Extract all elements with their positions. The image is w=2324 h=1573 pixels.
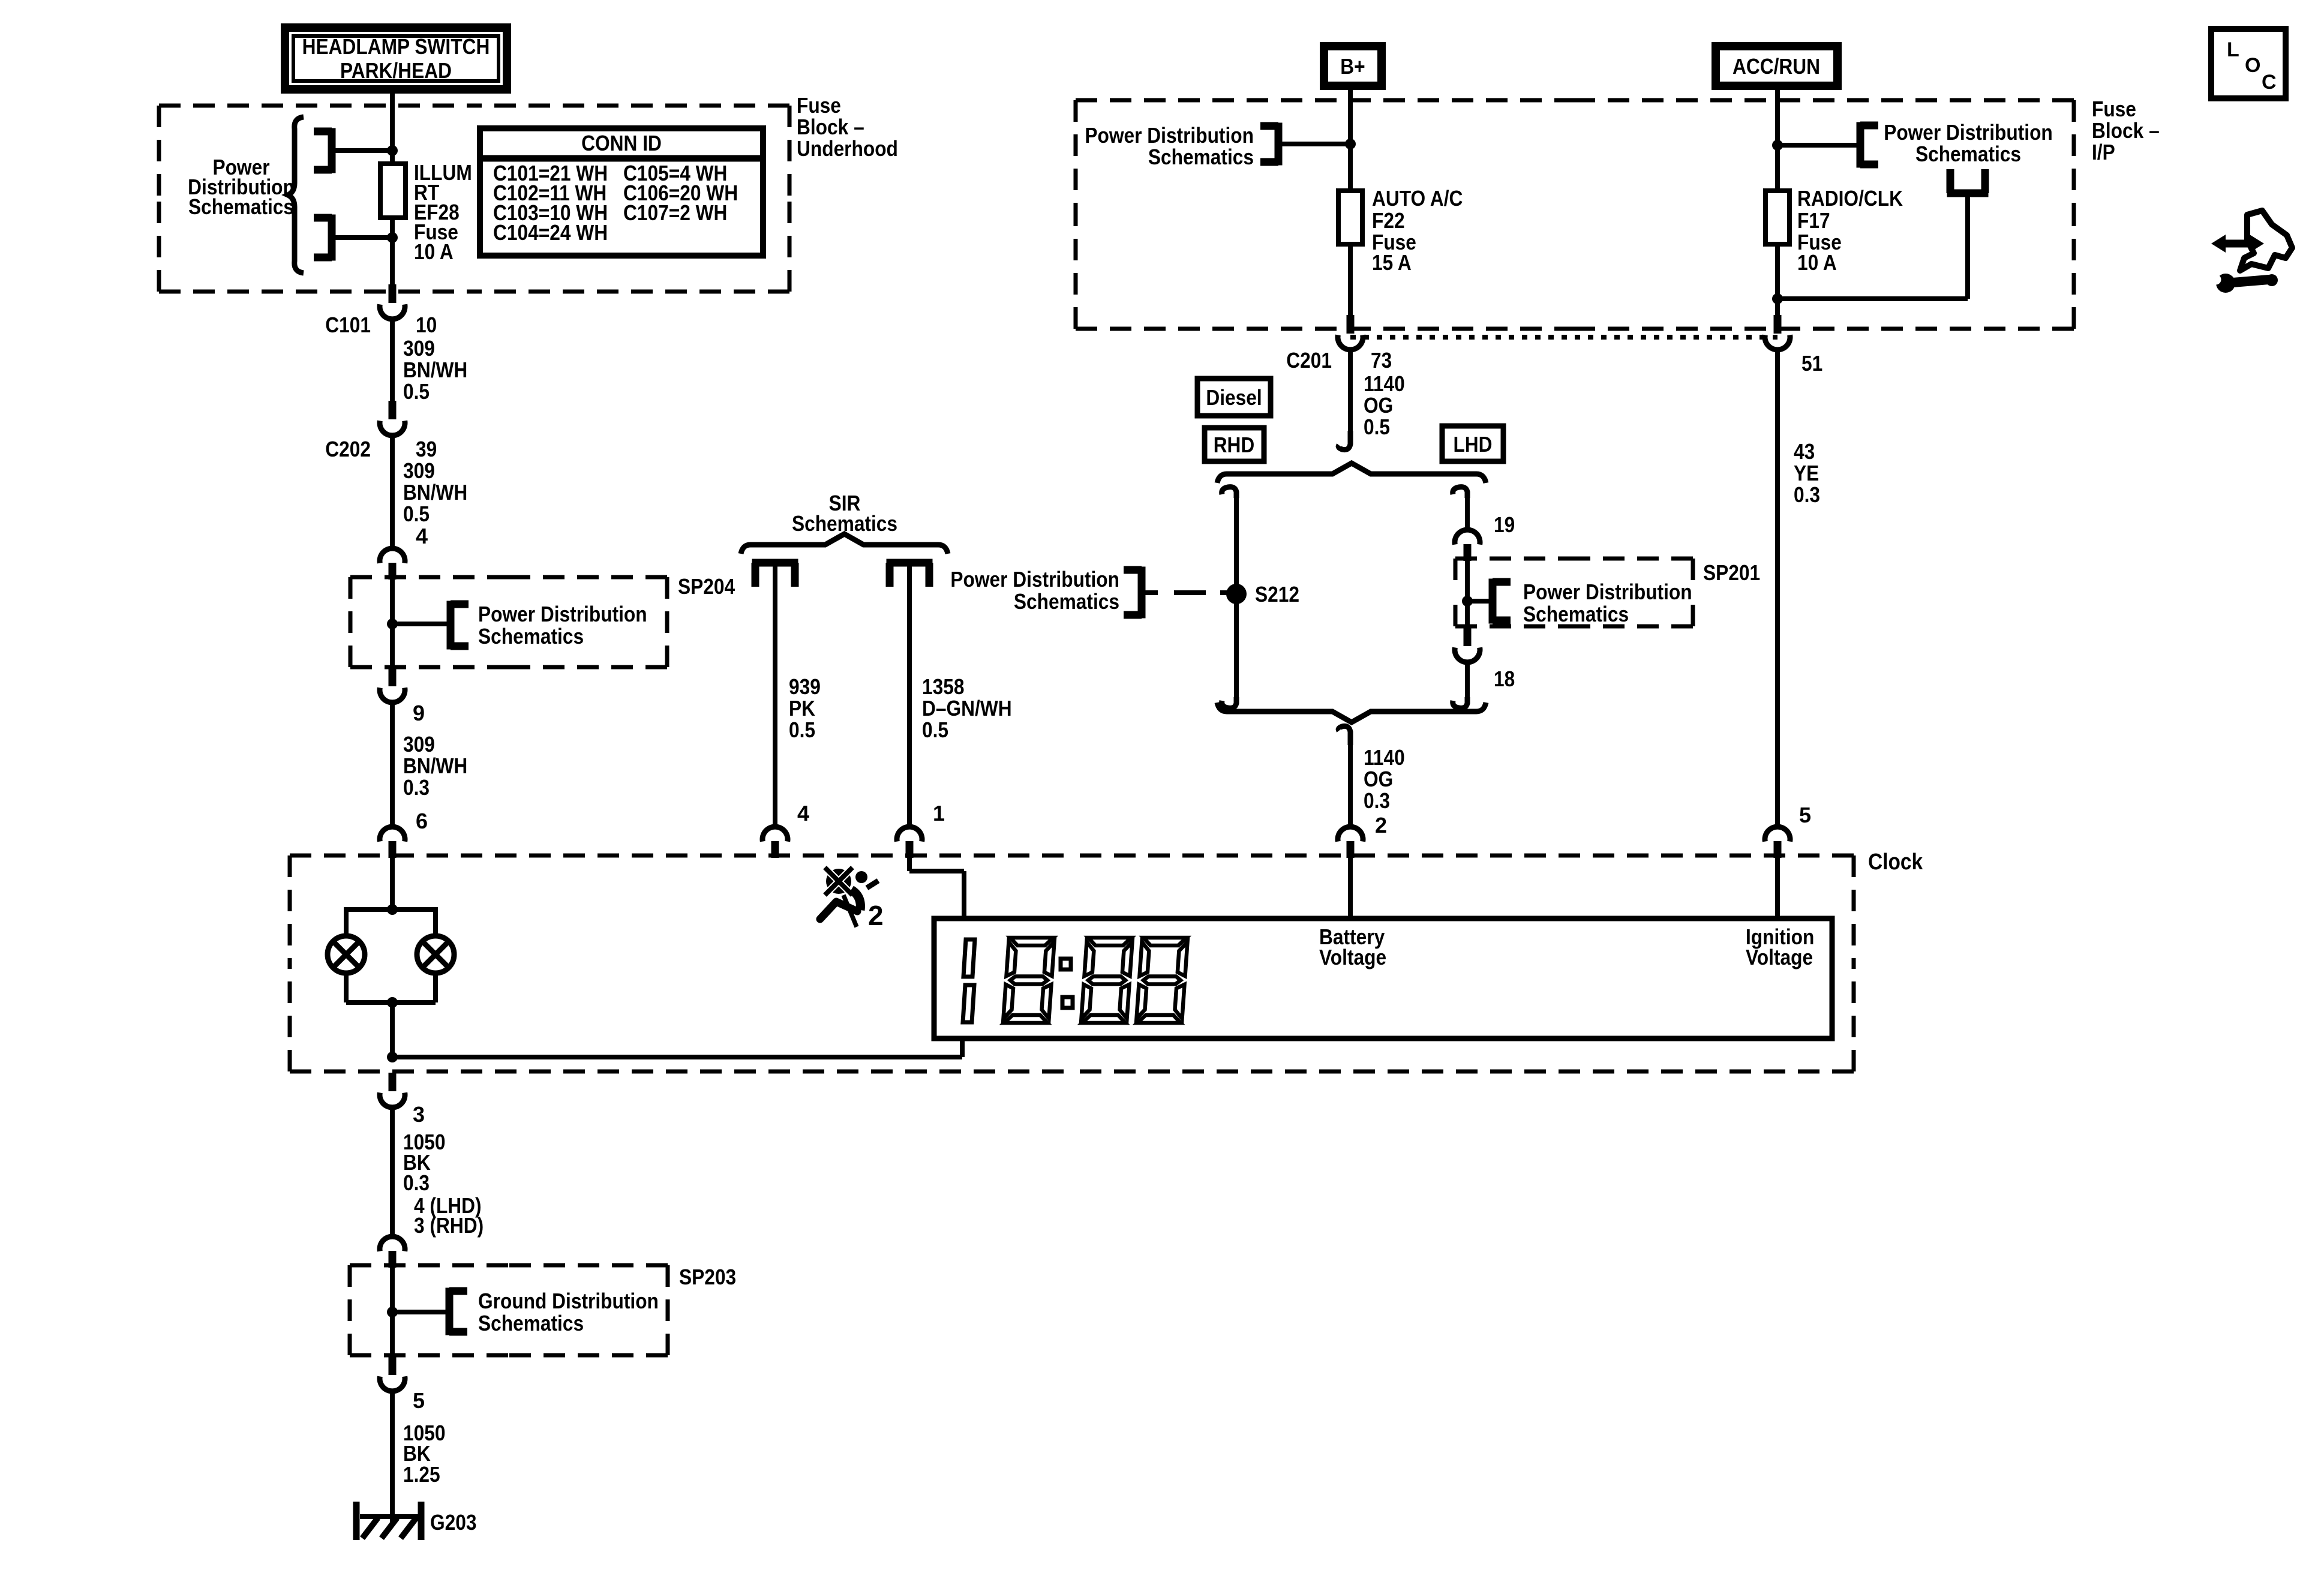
- wire stub lower to main: [332, 235, 392, 240]
- svg-text:SP201: SP201: [1703, 560, 1760, 585]
- svg-text:0.5: 0.5: [789, 718, 815, 742]
- svg-text:10 A: 10 A: [1797, 250, 1837, 275]
- svg-text:OG: OG: [1364, 767, 1393, 791]
- wire pin2 to display: [1348, 853, 1353, 920]
- connector pin 1 into clock: [897, 827, 922, 858]
- icon wrench: [2211, 274, 2278, 293]
- label G203: [430, 1510, 477, 1535]
- brace alternatives lower: [1217, 703, 1486, 722]
- display digit 8 second: [1082, 938, 1133, 1023]
- junction SP204: [387, 619, 398, 629]
- SP201 dashed box: [1455, 559, 1693, 626]
- SP204 dashed box: [350, 577, 667, 667]
- svg-text:PK: PK: [789, 696, 815, 721]
- connector pin 4 into clock: [762, 827, 788, 858]
- svg-text:939: 939: [789, 674, 821, 699]
- label wire 43 YE 0.3: [1794, 439, 1820, 507]
- label fuse ILLUM RT EF28: [414, 160, 472, 264]
- wire stub upper to main: [332, 148, 392, 153]
- svg-text:1140: 1140: [1364, 371, 1405, 396]
- svg-text:Schematics: Schematics: [1148, 145, 1254, 169]
- junction ground rail: [387, 1052, 398, 1062]
- wire lamp branch bottom rail: [346, 1000, 436, 1005]
- brace SIR schematics: [741, 534, 948, 554]
- wire SP203 to bracket: [392, 1310, 449, 1314]
- splice S212: [1226, 584, 1247, 604]
- wire lamp right bottom: [433, 972, 438, 1002]
- connector C202 pin 39: [380, 401, 405, 436]
- svg-text:0.5: 0.5: [1364, 415, 1390, 439]
- svg-text:1140: 1140: [1364, 745, 1405, 770]
- wire C201 to brace: [1348, 349, 1353, 444]
- clock dashed box: [290, 855, 1854, 1071]
- connector pin 5 into clock: [1765, 827, 1790, 858]
- svg-text:Power Distribution: Power Distribution: [950, 567, 1119, 592]
- connector pin 18: [1455, 628, 1480, 662]
- svg-text:0.3: 0.3: [403, 775, 430, 800]
- svg-text:Diesel: Diesel: [1206, 385, 1262, 410]
- svg-text:0.3: 0.3: [403, 1170, 430, 1195]
- label airbag 2: [868, 900, 884, 931]
- wire F22 to C201: [1348, 244, 1353, 316]
- svg-text:F17: F17: [1797, 208, 1830, 233]
- svg-text:0.5: 0.5: [922, 718, 948, 742]
- svg-text:1: 1: [933, 801, 945, 825]
- connector C201 pin 51: [1765, 315, 1790, 350]
- wire C101 to C202: [390, 318, 395, 402]
- svg-text:9: 9: [413, 701, 425, 725]
- label fuse RADIO/CLK F17: [1797, 186, 1903, 275]
- svg-text:B+: B+: [1340, 54, 1365, 79]
- label pin 10: [416, 313, 437, 337]
- break hook above brace: [1338, 431, 1350, 450]
- svg-text:6: 6: [416, 809, 428, 833]
- label Power Distribution Schematics (S212): [950, 567, 1119, 614]
- svg-text:C202: C202: [325, 437, 371, 461]
- label Ground Distribution Schematics: [478, 1289, 659, 1335]
- svg-text:I/P: I/P: [2092, 140, 2115, 164]
- wire ground rail: [392, 1055, 962, 1059]
- wire lamp left bottom: [344, 972, 349, 1002]
- svg-text:0.3: 0.3: [1364, 788, 1390, 813]
- label pin 51: [1801, 351, 1822, 376]
- label Ignition Voltage: [1746, 924, 1814, 969]
- svg-text:PARK/HEAD: PARK/HEAD: [340, 58, 452, 83]
- svg-text:CONN ID: CONN ID: [581, 131, 662, 155]
- connector stub SP201 power distribution: [1493, 579, 1511, 624]
- connector stub ACC power distribution upper: [1860, 122, 1878, 168]
- label box RHD: [1205, 428, 1264, 461]
- svg-text:39: 39: [416, 437, 437, 461]
- label wire 309 BN/WH 0.5 (b): [403, 458, 467, 526]
- label fuse AUTO A/C F22: [1372, 186, 1463, 275]
- hook RHD branch bottom: [1222, 697, 1236, 708]
- label Clock: [1868, 849, 1923, 875]
- connector into SP204: [380, 548, 405, 580]
- wire fuse to C101: [390, 218, 395, 286]
- wire B+ to fuse F22: [1348, 86, 1353, 191]
- wire SIR pin4: [773, 563, 777, 828]
- connector stub SP203 ground distribution: [449, 1288, 467, 1335]
- connector stub B+ power distribution: [1260, 123, 1278, 166]
- label pin 6: [416, 809, 428, 833]
- label wire 1140 OG 0.5: [1364, 371, 1405, 439]
- label box Diesel: [1197, 379, 1271, 416]
- label wire 1358 D-GN/WH 0.5: [922, 674, 1012, 742]
- wire inside SP201: [1465, 557, 1470, 628]
- wire SIR pin1: [907, 563, 912, 828]
- label Power Distribution Schematics (ACC upper): [1884, 120, 2053, 166]
- svg-text:0.5: 0.5: [403, 502, 430, 526]
- fuse block underhood dashed box: [159, 106, 789, 292]
- brace alternatives upper: [1217, 463, 1486, 483]
- wire pin18 down: [1465, 661, 1470, 698]
- svg-text:AUTO A/C: AUTO A/C: [1372, 186, 1463, 211]
- svg-text:4: 4: [797, 801, 809, 825]
- wire F17 to pin51: [1775, 244, 1780, 316]
- svg-text:Schematics: Schematics: [1014, 589, 1119, 614]
- svg-text:4: 4: [416, 524, 428, 548]
- icon navigation pointer: [2211, 211, 2292, 271]
- wire pin51 to pin5: [1775, 349, 1780, 828]
- svg-text:Block –: Block –: [797, 115, 864, 139]
- svg-text:2: 2: [1375, 813, 1387, 837]
- label pin 4 (SP204): [416, 524, 428, 548]
- label pin 1 (clock): [933, 801, 945, 825]
- connector pin 3: [380, 1073, 405, 1107]
- display digit 8 third: [1137, 938, 1188, 1023]
- svg-text:G203: G203: [430, 1510, 477, 1535]
- wire RHD branch: [1234, 496, 1239, 698]
- svg-text:10: 10: [416, 313, 437, 337]
- svg-text:SP203: SP203: [679, 1265, 736, 1289]
- junction ACC upper: [1772, 140, 1783, 151]
- junction ACC lower: [1772, 293, 1783, 304]
- svg-text:Voltage: Voltage: [1746, 945, 1813, 969]
- label Battery Voltage: [1319, 924, 1386, 969]
- svg-text:73: 73: [1371, 348, 1392, 373]
- wire lamp branch top rail: [346, 907, 436, 912]
- label 3 (RHD): [414, 1213, 484, 1238]
- svg-text:C201: C201: [1286, 348, 1332, 373]
- wire ACC/RUN to fuse F17: [1775, 86, 1780, 191]
- connector stub ACC power distribution lower: [1947, 169, 1989, 193]
- label wire 1050 BK 0.3: [403, 1130, 446, 1195]
- svg-text:C107=2 WH: C107=2 WH: [623, 200, 727, 225]
- label C202: [325, 437, 371, 461]
- SP203 dashed box: [350, 1265, 668, 1355]
- connector stub lower (power distribution): [314, 215, 332, 261]
- wire pin6 to lamp branch: [390, 853, 395, 909]
- svg-text:15 A: 15 A: [1372, 250, 1412, 275]
- wire stub to ACC leg: [1777, 143, 1860, 148]
- junction lamp bottom: [387, 997, 398, 1008]
- svg-text:1.25: 1.25: [403, 1462, 440, 1487]
- svg-text:OG: OG: [1364, 393, 1393, 418]
- svg-text:309: 309: [403, 458, 435, 483]
- connector into SP203: [380, 1236, 405, 1268]
- svg-text:C: C: [2262, 71, 2277, 94]
- svg-text:3 (RHD): 3 (RHD): [414, 1213, 484, 1238]
- wire LHD to pin19: [1465, 496, 1470, 532]
- svg-text:Power Distribution: Power Distribution: [1523, 580, 1692, 604]
- hook LHD branch bottom: [1453, 697, 1467, 708]
- label Power Distribution Schematics (SP201): [1523, 580, 1692, 626]
- svg-text:Power Distribution: Power Distribution: [478, 602, 647, 626]
- label Power Distribution Schematics (B+): [1085, 123, 1254, 169]
- label pin 9: [413, 701, 425, 725]
- wire dashed to S212: [1142, 590, 1236, 595]
- svg-text:O: O: [2245, 54, 2260, 77]
- svg-text:Schematics: Schematics: [188, 194, 294, 219]
- connector stub upper (power distribution): [314, 128, 332, 173]
- label pin 5 (clock): [1799, 803, 1811, 827]
- svg-text:1358: 1358: [922, 674, 965, 699]
- svg-text:Voltage: Voltage: [1319, 945, 1386, 969]
- wire stub to B+ leg: [1278, 142, 1350, 146]
- wire pin3 to SP203: [390, 1106, 395, 1235]
- svg-text:5: 5: [413, 1388, 425, 1413]
- lamp right: [417, 936, 454, 973]
- wire headlamp switch to fuse: [390, 94, 395, 164]
- connector pin 9: [380, 668, 405, 703]
- svg-text:19: 19: [1494, 512, 1515, 537]
- wire lamp left drop: [344, 907, 349, 938]
- svg-text:3: 3: [413, 1102, 425, 1127]
- label Power Distribution Schematics (SP204): [478, 602, 647, 649]
- connector drop SIR right: [887, 563, 933, 587]
- junction SP203: [387, 1307, 398, 1317]
- power terminal B+: [1324, 46, 1382, 86]
- ground G203: [356, 1502, 421, 1540]
- label pin 73: [1371, 348, 1392, 373]
- connector C201 pin 73: [1338, 315, 1363, 350]
- svg-text:Schematics: Schematics: [1915, 142, 2021, 166]
- wire pin5 to ground: [390, 1390, 395, 1524]
- svg-text:2: 2: [868, 900, 884, 931]
- display colon: [1061, 959, 1073, 1008]
- lamp left: [328, 936, 365, 973]
- connector pin 6 into clock: [380, 827, 405, 858]
- wire rail to display: [960, 1036, 965, 1057]
- label SP204: [678, 574, 735, 599]
- junction upper: [387, 145, 398, 156]
- connector pin 19 into SP201: [1455, 530, 1480, 561]
- break hook below brace: [1338, 726, 1350, 745]
- label pin 19: [1494, 512, 1515, 537]
- label wire 1050 BK 1.25: [403, 1421, 446, 1487]
- label SP203: [679, 1265, 736, 1289]
- label C101: [325, 313, 371, 337]
- connector C101 pin 10: [380, 284, 405, 319]
- label wire 939 PK 0.5: [789, 674, 821, 742]
- svg-text:Clock: Clock: [1868, 849, 1923, 875]
- junction lamp top: [387, 904, 398, 915]
- svg-text:BN/WH: BN/WH: [403, 754, 467, 778]
- label wire 1140 OG 0.3: [1364, 745, 1405, 813]
- label S212: [1255, 582, 1299, 607]
- svg-text:Block –: Block –: [2092, 118, 2160, 143]
- svg-text:F22: F22: [1372, 208, 1405, 233]
- wire SP201 to bracket: [1467, 599, 1493, 604]
- svg-text:10 A: 10 A: [414, 239, 454, 264]
- label 4 (LHD): [414, 1193, 482, 1218]
- svg-text:Schematics: Schematics: [478, 1311, 584, 1335]
- label wire 309 BN/WH 0.3: [403, 732, 467, 800]
- wire lamp to ground rail: [390, 1002, 395, 1057]
- icon airbag SIR: [820, 867, 878, 927]
- dotted connector line C201: [1350, 335, 1777, 340]
- svg-text:RADIO/CLK: RADIO/CLK: [1797, 186, 1903, 211]
- svg-text:S212: S212: [1255, 582, 1299, 607]
- label pin 18: [1494, 667, 1515, 691]
- component box HEADLAMP SWITCH PARK/HEAD: [285, 28, 507, 89]
- connector stub SP204 power distribution: [451, 601, 469, 650]
- svg-text:18: 18: [1494, 667, 1515, 691]
- svg-text:ACC/RUN: ACC/RUN: [1733, 54, 1820, 79]
- svg-text:BN/WH: BN/WH: [403, 480, 467, 505]
- wire C202 to SP204: [390, 434, 395, 546]
- connector pin 2 into clock: [1338, 827, 1363, 858]
- connector stub S212 power distribution: [1124, 567, 1142, 619]
- connector drop SIR left: [752, 563, 798, 587]
- display digit 1: [963, 939, 975, 1022]
- svg-text:C101: C101: [325, 313, 371, 337]
- power terminal ACC/RUN: [1716, 46, 1837, 86]
- svg-text:BN/WH: BN/WH: [403, 358, 467, 382]
- svg-text:Power Distribution: Power Distribution: [1884, 120, 2053, 145]
- label pin 39: [416, 437, 437, 461]
- label pin 2: [1375, 813, 1387, 837]
- label wire 309 BN/WH 0.5 (a): [403, 336, 467, 404]
- CONN ID table: [480, 128, 763, 256]
- svg-text:HEADLAMP SWITCH: HEADLAMP SWITCH: [302, 34, 490, 59]
- svg-text:Fuse: Fuse: [797, 93, 841, 118]
- svg-text:L: L: [2227, 38, 2239, 61]
- svg-text:43: 43: [1794, 439, 1815, 464]
- svg-text:309: 309: [403, 732, 435, 757]
- svg-text:Fuse: Fuse: [2092, 97, 2136, 121]
- svg-text:YE: YE: [1794, 461, 1819, 485]
- label box LHD: [1442, 426, 1503, 461]
- wire pin5 to display: [1775, 853, 1780, 920]
- junction B+ leg: [1345, 139, 1356, 149]
- clock display box: [934, 918, 1832, 1038]
- svg-text:309: 309: [403, 336, 435, 361]
- label Fuse Block I/P: [2092, 97, 2160, 164]
- brace power distribution: [288, 117, 304, 273]
- wire lamp right drop: [433, 907, 438, 938]
- svg-text:Underhood: Underhood: [797, 136, 898, 161]
- junction lower: [387, 232, 398, 243]
- label pin 5 (ground): [413, 1388, 425, 1413]
- wire brace to pin2: [1348, 744, 1353, 828]
- label C201: [1286, 348, 1332, 373]
- svg-text:Ground Distribution: Ground Distribution: [478, 1289, 659, 1313]
- svg-text:Schematics: Schematics: [478, 624, 584, 649]
- svg-text:C104=24 WH: C104=24 WH: [493, 220, 608, 245]
- svg-text:0.3: 0.3: [1794, 482, 1820, 507]
- label pin 4 (clock): [797, 801, 809, 825]
- svg-text:RHD: RHD: [1214, 433, 1255, 457]
- junction SP201: [1462, 596, 1473, 607]
- label Power Distribution Schematics (underhood): [188, 155, 295, 219]
- wire inside SP203: [390, 1263, 395, 1356]
- fuse ILLUM RT EF28 10A: [380, 164, 406, 218]
- wire pin9 to clock: [390, 701, 395, 828]
- svg-text:D–GN/WH: D–GN/WH: [922, 696, 1012, 721]
- label SP201: [1703, 560, 1760, 585]
- svg-text:SP204: SP204: [678, 574, 735, 599]
- display digit 8 first: [1004, 938, 1055, 1023]
- hook LHD branch top: [1453, 487, 1467, 498]
- wire inside SP204: [390, 575, 395, 668]
- hook RHD branch top: [1222, 487, 1236, 498]
- svg-text:51: 51: [1801, 351, 1822, 376]
- wire ACC lower loop: [1777, 193, 1968, 299]
- connector pin 5 below SP203: [380, 1356, 405, 1391]
- svg-text:0.5: 0.5: [403, 379, 430, 404]
- svg-text:Power Distribution: Power Distribution: [1085, 123, 1254, 148]
- fuse block I/P dashed box: [1076, 100, 2074, 329]
- wire pin1 to display: [909, 853, 964, 920]
- label pin 3: [413, 1102, 425, 1127]
- fuse AUTO A/C F22 15A: [1338, 191, 1362, 244]
- label SIR Schematics: [792, 491, 897, 536]
- fuse RADIO/CLK F17 10A: [1765, 191, 1789, 244]
- svg-text:5: 5: [1799, 803, 1811, 827]
- label Fuse Block Underhood: [797, 93, 898, 161]
- svg-text:LHD: LHD: [1453, 432, 1492, 457]
- svg-text:Schematics: Schematics: [1523, 602, 1629, 626]
- wire SP204 to bracket: [392, 622, 451, 626]
- LOC reference box: [2211, 29, 2286, 98]
